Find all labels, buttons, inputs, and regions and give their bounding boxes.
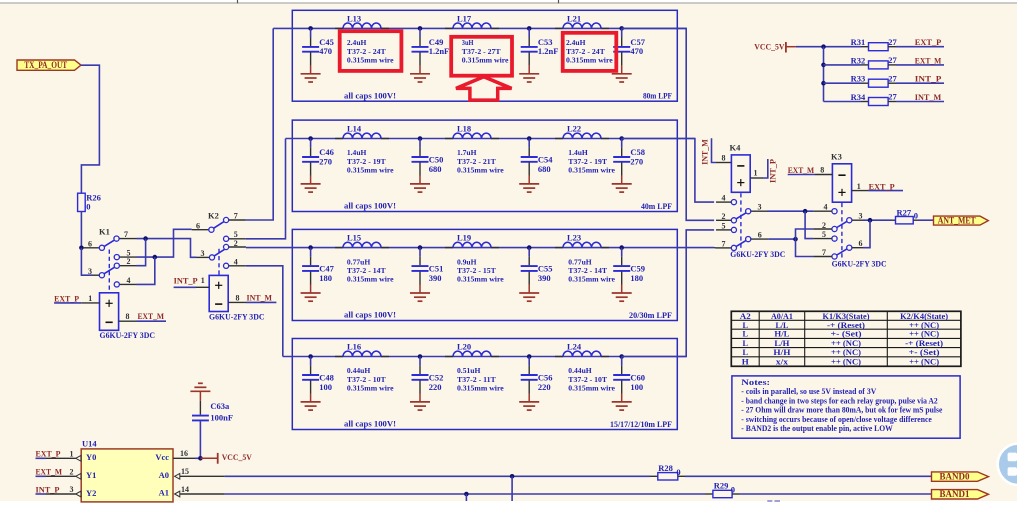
wire junction down to K3 pin 6 [863,220,870,248]
svg-text:0.44uH: 0.44uH [568,366,592,375]
wire 80m LPF output down to K4 pin 2 [622,28,714,220]
svg-text:0.315mm wire: 0.315mm wire [457,275,504,284]
junction feed R33 [821,81,826,86]
svg-text:K4: K4 [730,142,742,152]
svg-text:0.315mm wire: 0.315mm wire [457,166,504,175]
pin 2 contact of K1 [114,263,119,268]
svg-text:2.4uH: 2.4uH [566,38,586,47]
viewer widget circle [998,444,1017,486]
svg-text:27: 27 [888,92,897,102]
wire A0 branch down [511,476,513,501]
svg-text:220: 220 [429,382,442,392]
wire feed to R32 [824,64,862,66]
left lead of R33 [861,82,869,84]
left lead of R28 [650,475,658,477]
svg-text:T37-2 - 10T: T37-2 - 10T [568,375,607,384]
svg-text:0.315mm wire: 0.315mm wire [347,56,394,65]
svg-text:G6KU-2FY 3DC: G6KU-2FY 3DC [730,249,785,259]
resistor R27 [896,217,914,224]
right lead of R32 [888,64,896,66]
capacitor C53 [528,28,530,37]
truth table grid [731,311,961,366]
svg-text:390: 390 [538,273,551,283]
svg-text:15: 15 [181,467,189,476]
dashed actuator line of K1 [108,250,110,293]
svg-text:390: 390 [429,273,442,283]
pin 4 stub of K1 [119,283,136,285]
svg-text:R31: R31 [851,37,866,47]
pin 3 contact of K2 [209,255,214,260]
pin 4 stub of K4 [716,201,731,203]
pin 5 stub of K3 [813,238,831,240]
port TX_PA_OUT [17,60,81,70]
svg-text:L19: L19 [457,233,471,243]
ground below C60 [621,393,623,401]
wire EXT_P to K1 pin 1 [54,302,81,304]
clipped label fragment below R29 [767,500,780,502]
svg-text:680: 680 [538,164,551,174]
pin 3 contact of K4 [746,209,751,214]
minus mark of K3 coil [838,174,845,176]
svg-text:27: 27 [888,55,897,65]
filter main wire of 80m LPF [273,27,686,29]
LPF filter group box 15/17/12/10m LPF [292,339,677,430]
inductor L15 [343,242,381,247]
svg-text:0.315mm wire: 0.315mm wire [347,166,394,175]
svg-text:2: 2 [127,257,131,266]
svg-text:INT_M: INT_M [915,92,942,102]
plus mark of K4 coil [737,179,744,186]
svg-text:EXT_M: EXT_M [915,55,942,65]
inductor L18 [453,133,491,138]
wire K1 pin5 junction to K2 pin 6 [137,229,192,257]
svg-text:4: 4 [824,203,828,212]
pin 5 contact of K4 [731,227,736,232]
junction on K1 pin 7 net [143,236,148,241]
relay coil K2 [209,275,228,311]
pin 7 stub of K3 [813,256,831,258]
svg-text:R32: R32 [851,55,866,65]
pin 3 stub of K1 [93,274,100,276]
svg-text:0.315mm wire: 0.315mm wire [347,384,394,393]
switch arm K1 3-2 [104,267,114,273]
inductor L13 [343,23,381,28]
input arrow of U14 pin 2 [76,473,81,479]
junction at C50 [418,136,423,141]
capacitor C48 [310,357,312,366]
svg-text:all caps 100V!: all caps 100V! [344,420,396,429]
capacitor C49 [419,28,421,37]
junction at C56 [527,354,532,359]
ground below C56 [528,393,530,401]
svg-text:100nF: 100nF [210,413,233,423]
ground below C51 [419,284,421,292]
svg-text:Vcc: Vcc [155,452,169,462]
capacitor C63a [192,416,209,421]
switch arm K2 6-7 [214,222,224,229]
junction at C49 [418,26,423,31]
pin 8 stub of K2 coil [228,301,246,303]
wire K4 pin 3 to K3 pin 4 [768,210,814,212]
svg-text:40m LPF: 40m LPF [641,201,672,211]
pin stubs of L16 [335,356,389,358]
svg-text:EXT_M: EXT_M [138,311,165,321]
capacitor C46 [310,139,312,148]
junction feed R32 [821,63,826,68]
svg-text:5: 5 [722,222,726,231]
pin 6 contact of K1 [99,245,104,250]
svg-text:2.4uH: 2.4uH [347,38,367,47]
svg-text:U14: U14 [82,438,97,448]
wire junction down to K1 pin 2 [137,239,146,266]
svg-text:T37-2 - 24T: T37-2 - 24T [347,47,386,56]
wire junction down to K3 pin 5 [805,211,813,238]
svg-text:T37-2 - 11T: T37-2 - 11T [457,375,496,384]
capacitor C57 [621,28,623,37]
pin 8 stub of K4 coil [716,162,731,164]
pin stubs of L15 [335,247,389,249]
switch arm K4 2-3 [736,213,746,219]
svg-text:L17: L17 [457,14,472,24]
svg-text:INT_P: INT_P [768,159,778,183]
pin 2 lead of U14 [46,475,76,477]
wire junction up to K3 pin 2 [796,229,814,239]
svg-text:0.315mm wire: 0.315mm wire [347,275,394,284]
junction at C46 [308,136,313,141]
filter main wire of 40m LPF [286,138,695,140]
wire U14 Vcc to junction [195,457,200,459]
svg-text:EXT_M: EXT_M [788,165,815,175]
highlight box on L17 spec [451,37,512,76]
capacitor C54 [528,139,530,148]
svg-text:100: 100 [319,382,332,392]
ground below C46 [310,175,312,183]
wire R31 to EXT_P [896,46,944,48]
svg-text:4: 4 [127,276,131,285]
wire R26 to K1 pin 6 junction [80,212,82,248]
input arrow of U14 pin 1 [76,455,81,461]
junction at C54 [527,136,532,141]
svg-text:T37-2 - 14T: T37-2 - 14T [568,266,607,275]
pin 5 stub of K4 [716,229,731,231]
pin 1 stub of K1 coil [81,302,99,304]
top chrome tick 2 [558,0,560,3]
highlight box on L13 spec [340,31,402,71]
right lead of R27 [913,219,918,221]
svg-text:470: 470 [630,46,643,56]
wire 20/30m LPF output to K4 pin 7 stub [714,247,716,249]
ground below C52 [419,393,421,401]
svg-text:220: 220 [538,382,551,392]
svg-text:8: 8 [820,166,824,175]
junction on A1 wire [464,492,469,497]
LPF filter group box 20/30m LPF [292,229,677,320]
ground below C59 [621,284,623,292]
svg-text:R28: R28 [658,463,673,473]
svg-text:1.4uH: 1.4uH [568,148,588,157]
ground below C55 [528,284,530,292]
junction at C48 [308,354,313,359]
svg-text:7: 7 [124,230,128,239]
svg-text:0.77uH: 0.77uH [568,257,592,266]
junction at C52 [418,354,423,359]
svg-text:0.44uH: 0.44uH [347,366,371,375]
svg-text:3: 3 [201,249,205,258]
svg-text:K3: K3 [831,151,842,161]
wire C63a down to VCC junction [199,421,201,458]
svg-text:0.315mm wire: 0.315mm wire [568,275,615,284]
svg-text:L16: L16 [347,342,361,352]
svg-text:K2: K2 [208,210,219,220]
power bar VCC_5V at U14 [217,453,219,464]
resistor R32 [869,61,889,69]
resistor R29 [713,490,732,497]
svg-text:T37-2 - 10T: T37-2 - 10T [347,375,386,384]
wire K2 pin 5 up to 40m LPF input [246,139,286,239]
svg-text:0.77uH: 0.77uH [347,257,371,266]
svg-text:all caps 100V!: all caps 100V! [344,311,396,320]
svg-text:0.315mm wire: 0.315mm wire [457,384,504,393]
svg-text:2: 2 [70,467,74,476]
pin stubs of L19 [445,247,499,249]
pin 3 stub of K4 [751,210,768,212]
capacitor C50 [419,139,421,148]
svg-text:L14: L14 [347,124,362,134]
wire R32 to EXT_M [896,64,944,66]
inductor L20 [453,351,491,356]
svg-text:all caps 100V!: all caps 100V! [344,91,396,100]
wire K1 pin 8 to EXT_M [137,320,167,322]
IC U14 body [81,449,173,502]
capacitor C55 [528,248,530,257]
inductor L21 [563,23,601,28]
svg-text:1.4uH: 1.4uH [347,148,367,157]
svg-text:INT_M: INT_M [700,139,710,165]
pin 7 stub of K4 [716,247,731,249]
svg-text:L13: L13 [347,14,361,24]
input arrow of U14 pin 14 [175,491,180,497]
wire EXT_M to K3 pin 8 [788,174,815,176]
right lead of R28 [678,475,685,477]
pin 8 stub of K1 coil [119,320,137,322]
left lead of R34 [861,101,869,103]
wire A1 to R29 [225,493,705,495]
wire 40m LPF output down to K4 pin 4 [622,139,714,203]
pin 4 stub of K3 [813,210,831,212]
inductor L24 [563,351,601,356]
svg-text:80m LPF: 80m LPF [643,91,672,101]
switch arm K1 6-7 [104,240,114,246]
relay coil K3 [832,164,851,202]
junction at C47 [308,245,313,250]
pin 5 stub of K1 [119,256,136,258]
switch arm K2 3-2 [214,249,224,256]
wire K4 pin 6 to junction [769,238,796,240]
inductor L22 [563,133,601,138]
svg-text:1: 1 [201,276,205,285]
wire INT_P to K2 pin 1 [174,286,196,288]
svg-text:T37-2 - 27T: T37-2 - 27T [462,47,501,56]
minus mark of K1 coil [106,321,113,323]
resistor R31 [869,43,889,51]
wire K1 pin6 junction down to pin 3 [81,248,92,275]
svg-text:7: 7 [822,248,826,257]
wire R34 to INT_M [896,101,944,103]
ground below C58 [621,175,623,183]
svg-text:L15: L15 [347,233,361,243]
svg-text:0: 0 [731,485,735,495]
wire K3 pin 3 to R27 [863,219,892,221]
svg-text:5: 5 [822,230,826,239]
wire K4 pin 8 up to INT_M [712,138,717,162]
port BAND0 [932,472,989,481]
junction at C55 [527,245,532,250]
junction VCC_5V [821,44,826,49]
capacitor C60 [621,357,623,366]
LPF filter group box 40m LPF [292,120,677,211]
svg-text:EXT_P: EXT_P [869,181,895,191]
svg-text:T37-2 - 15T: T37-2 - 15T [457,266,496,275]
junction at C58 [619,136,624,141]
svg-text:G6KU-2FY 3DC: G6KU-2FY 3DC [209,311,265,321]
svg-text:15/17/12/10m LPF: 15/17/12/10m LPF [610,419,672,429]
svg-text:6: 6 [196,221,200,230]
wire A0 to R28 [225,475,650,477]
pin 6 contact of K2 [209,227,214,232]
svg-text:INT_P: INT_P [174,275,198,285]
pin 7 contact of K4 [731,245,736,250]
switch arm K3 2-3 [837,221,847,227]
junction on K4 pin 6 net [793,237,798,242]
svg-text:L22: L22 [567,124,581,134]
junction on A0 wire [510,474,515,479]
wire K3 pin 1 to EXT_P [868,190,903,192]
pin 4 contact of K4 [731,200,736,205]
wire K4 pin 1 up to INT_P [763,159,768,178]
svg-text:2: 2 [822,221,826,230]
svg-text:3: 3 [859,212,863,221]
svg-text:8: 8 [126,312,130,321]
junction at R26 / K1 pin 6 [79,246,84,251]
capacitor C47 [310,248,312,257]
svg-text:1: 1 [88,294,92,303]
wire R29 to BAND1 [740,493,932,495]
svg-text:0.51uH: 0.51uH [457,366,481,375]
switch arm K4 7-6 [736,240,746,246]
svg-text:Y1: Y1 [86,470,96,480]
svg-text:BAND1: BAND1 [940,489,970,499]
capacitor C45 [310,28,312,37]
resistor R26 [78,193,86,211]
inductor L14 [343,133,381,138]
svg-text:3: 3 [88,267,92,276]
svg-text:T37-2 - 14T: T37-2 - 14T [347,266,386,275]
pin 3 stub of K2 [197,256,210,258]
wire junction down to K3 pin 7 [796,239,814,256]
svg-text:x/x: x/x [776,356,789,366]
pin 7 contact of K1 [114,236,119,241]
junction on K3 pin 3 net [868,218,873,223]
svg-text:3uH: 3uH [462,38,474,47]
svg-text:0.315mm wire: 0.315mm wire [568,166,615,175]
dashed actuator line of K4 [740,193,742,249]
svg-text:L18: L18 [457,124,471,134]
left lead of R31 [861,46,869,48]
pin 7 stub of K1 [119,238,136,240]
pin 1 stub of K3 coil [852,190,868,192]
svg-text:1: 1 [754,169,758,178]
left lead of R29 [705,493,713,495]
pin 6 stub of K3 [852,247,863,249]
pin 3 lead of U14 [46,493,76,495]
svg-text:4: 4 [234,257,238,266]
pin 4 contact of K2 [224,263,229,268]
switch arm K3 7-6 [837,249,847,255]
svg-text:A0: A0 [159,470,169,480]
pin 4 contact of K3 [832,209,837,214]
svg-text:100: 100 [630,382,643,392]
junction at C45 [308,26,313,31]
capacitor C51 [419,248,421,257]
port ANT_MET [934,216,989,225]
ground below C50 [419,175,421,183]
svg-text:R29: R29 [714,481,729,491]
wire K2 pin 7 up to 80m LPF input [246,28,273,220]
dashed actuator line of K2 [218,249,220,275]
plus mark of K2 coil [215,282,222,289]
svg-text:Y2: Y2 [86,488,96,498]
wire K2 pin 8 to INT_M [246,301,276,303]
svg-text:T37-2 - 19T: T37-2 - 19T [568,157,607,166]
pin 5 stub of K2 [229,238,246,240]
svg-text:T37-2 - 19T: T37-2 - 19T [347,157,386,166]
junction at C57 [619,26,624,31]
svg-text:0.315mm wire: 0.315mm wire [566,56,613,65]
pin stubs of L14 [335,138,389,140]
svg-text:EXT_M: EXT_M [36,467,63,477]
svg-text:++ (NC): ++ (NC) [909,356,939,366]
wire A1 branch down [465,494,467,501]
svg-text:7: 7 [722,240,726,249]
pin 1 stub of K4 coil [750,177,763,179]
wire K2 pin 4 down to 15m LPF input [246,266,283,357]
svg-text:G6KU-2FY 3DC: G6KU-2FY 3DC [100,330,156,340]
plus mark of K1 coil [106,300,113,307]
svg-text:TX_PA_OUT: TX_PA_OUT [24,60,67,70]
pin 6 stub of K4 [751,238,769,240]
power bar VCC_5V [785,42,787,53]
capacitor C52 [419,357,421,366]
svg-text:16: 16 [180,449,188,458]
input arrow of U14 pin 15 [175,473,180,479]
pin 4 contact of K1 [114,282,119,287]
pin stubs of L24 [555,356,609,358]
svg-text:2: 2 [234,239,238,248]
svg-text:1.7uH: 1.7uH [457,148,477,157]
wire VCC_5V to R31 [796,46,861,48]
svg-text:0.9uH: 0.9uH [457,257,477,266]
wire INT_P to U14 pin 3 [36,493,47,495]
left lead of R27 [892,219,896,221]
wire R28 to BAND0 [685,475,932,477]
pin 4 stub of K2 [229,265,246,267]
LPF filter group box 80m LPF [292,10,677,101]
svg-text:5: 5 [127,249,131,258]
inductor L17 [453,23,491,28]
minus mark of K4 coil [737,165,744,167]
svg-text:R27: R27 [897,207,912,217]
svg-text:270: 270 [630,156,643,166]
